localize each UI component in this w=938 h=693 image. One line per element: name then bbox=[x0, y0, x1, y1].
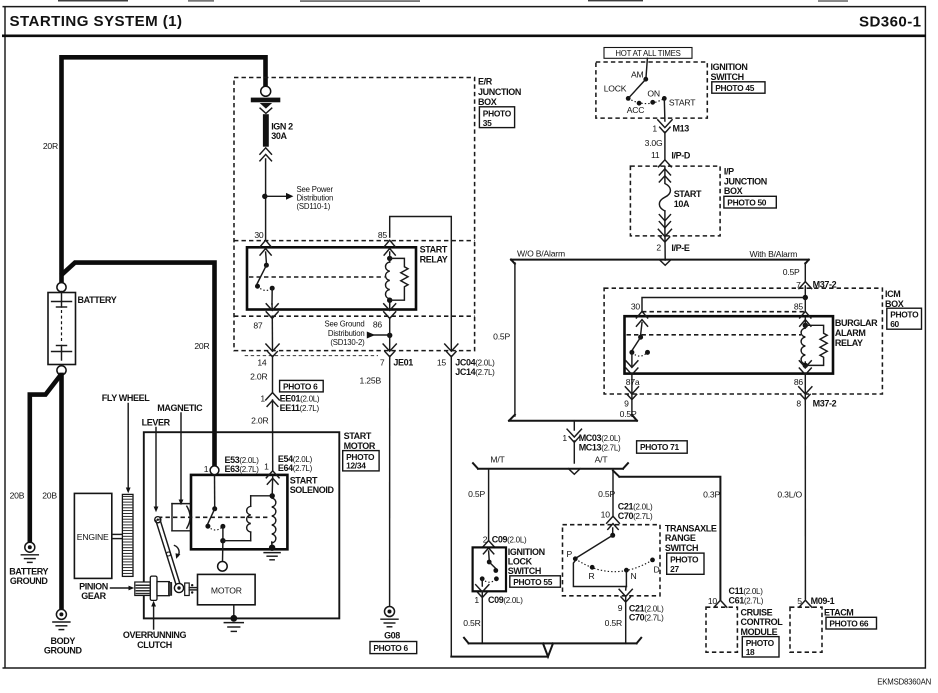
wire JC04 riser down bbox=[450, 356, 452, 657]
connector pin 5 M09-1 entry bbox=[799, 600, 812, 607]
start relay pin 30 bbox=[260, 240, 271, 247]
svg-text:20B: 20B bbox=[42, 490, 57, 500]
svg-text:I/P-D: I/P-D bbox=[671, 150, 690, 160]
fuse terminal circle bbox=[261, 86, 271, 96]
connector pin 2 C09 bbox=[482, 541, 495, 548]
solenoid pull-in coil bbox=[250, 532, 252, 541]
photo label PHOTO 66 bbox=[826, 617, 877, 629]
svg-text:M13: M13 bbox=[673, 124, 690, 134]
svg-text:20R: 20R bbox=[194, 341, 209, 351]
wire 0.3P branch bbox=[613, 471, 720, 599]
ignition switch box bbox=[596, 62, 707, 118]
svg-text:RELAY: RELAY bbox=[420, 255, 448, 265]
wire fuse to relay pin 30 bbox=[265, 159, 267, 241]
solenoid terminal 1 E53/E63 bbox=[210, 466, 219, 475]
bus M/T A/T split bbox=[473, 463, 628, 469]
svg-text:PHOTO 6: PHOTO 6 bbox=[373, 643, 408, 653]
svg-text:M/T: M/T bbox=[490, 454, 505, 464]
transaxle position arc bbox=[575, 559, 652, 572]
photo label PHOTO 6 (EE01) bbox=[280, 380, 324, 392]
title separator bar bbox=[2, 34, 926, 37]
photo label PHOTO 71 bbox=[637, 441, 688, 453]
svg-text:PHOTO 6: PHOTO 6 bbox=[283, 382, 318, 392]
svg-text:60: 60 bbox=[890, 319, 899, 329]
svg-text:TRANSAXLE: TRANSAXLE bbox=[665, 523, 717, 533]
svg-text:SWITCH: SWITCH bbox=[665, 543, 698, 553]
burglar alarm relay box bbox=[625, 316, 834, 373]
svg-text:2.0R: 2.0R bbox=[251, 415, 268, 425]
svg-text:10A: 10A bbox=[674, 199, 690, 209]
solenoid terminal 2 chevron E54/E64 bbox=[266, 471, 279, 478]
svg-text:C09(2.0L): C09(2.0L) bbox=[488, 595, 523, 605]
svg-text:LEVER: LEVER bbox=[142, 417, 171, 427]
svg-text:BOX: BOX bbox=[885, 299, 904, 309]
burglar relay mech dashed link bbox=[627, 334, 802, 336]
wire W/O branch down (0.5P) bbox=[514, 263, 516, 416]
svg-text:MODULE: MODULE bbox=[741, 627, 778, 637]
see power distribution arrow bbox=[265, 195, 286, 197]
svg-text:85: 85 bbox=[794, 301, 804, 311]
svg-text:0.5P: 0.5P bbox=[598, 489, 615, 499]
svg-text:14: 14 bbox=[257, 357, 267, 367]
svg-text:2: 2 bbox=[483, 534, 488, 544]
burglar relay resistor bbox=[805, 325, 827, 365]
svg-text:JE01: JE01 bbox=[393, 358, 413, 368]
fuse top chevrons bbox=[260, 103, 272, 109]
start relay pin 85 bbox=[384, 240, 395, 247]
svg-text:SOLENOID: SOLENOID bbox=[290, 485, 335, 495]
svg-text:R: R bbox=[588, 571, 594, 581]
wire motor to ground bbox=[233, 605, 235, 619]
clutch collar bbox=[150, 576, 157, 600]
svg-text:30: 30 bbox=[631, 301, 641, 311]
svg-text:ACC: ACC bbox=[627, 105, 645, 115]
wire With branch down bbox=[804, 263, 806, 281]
battery ground G bbox=[25, 542, 35, 552]
ignition lock switch box bbox=[473, 547, 506, 591]
body ground G bbox=[56, 609, 66, 619]
svg-text:SWITCH: SWITCH bbox=[711, 72, 744, 82]
svg-text:RANGE: RANGE bbox=[665, 533, 696, 543]
start relay pin 86 bbox=[389, 304, 391, 310]
svg-text:JUNCTION: JUNCTION bbox=[478, 87, 521, 97]
E/R junction box connector dashed row (pins 14/7) bbox=[245, 355, 378, 357]
wire pin 8 to ETACM (0.3L/O) bbox=[804, 398, 806, 599]
svg-text:AM: AM bbox=[631, 70, 644, 80]
scan specks top edge bbox=[58, 0, 848, 2]
connector pin 14 bbox=[266, 344, 279, 351]
svg-text:86: 86 bbox=[794, 377, 804, 387]
svg-text:0.5R: 0.5R bbox=[605, 618, 622, 628]
connector pin 2 I/P-E bbox=[664, 228, 666, 260]
svg-text:JUNCTION: JUNCTION bbox=[724, 176, 767, 186]
svg-text:E63(2.7L): E63(2.7L) bbox=[225, 464, 260, 474]
svg-text:ICM: ICM bbox=[885, 289, 900, 299]
see ground distribution arrow bbox=[367, 332, 375, 339]
start motor outer box bbox=[144, 432, 339, 618]
wire battery- to body ground (20B) bbox=[59, 375, 64, 609]
fuse START 10A element bbox=[659, 167, 670, 212]
svg-text:1: 1 bbox=[260, 393, 265, 403]
svg-text:PHOTO 45: PHOTO 45 bbox=[715, 83, 755, 93]
transaxle position contacts bbox=[573, 556, 578, 561]
battery terminal bottom bbox=[57, 366, 66, 375]
svg-text:1: 1 bbox=[562, 433, 567, 443]
photo label PHOTO 55 bbox=[510, 576, 561, 587]
node see-power tap bbox=[262, 194, 267, 199]
wire hot to AM bbox=[646, 58, 647, 77]
junction V at I/P-E bbox=[659, 260, 671, 266]
bus with/without alarm bbox=[511, 260, 809, 264]
svg-text:IGNITION: IGNITION bbox=[711, 62, 748, 72]
svg-text:GEAR: GEAR bbox=[81, 591, 106, 601]
wire node to pin 85 (burglar) bbox=[804, 298, 806, 312]
start relay resistor bbox=[390, 258, 408, 300]
solenoid mech dashed link bbox=[158, 516, 270, 518]
svg-text:27: 27 bbox=[670, 564, 679, 574]
fuse feed bar bbox=[251, 98, 280, 103]
svg-text:12/34: 12/34 bbox=[346, 461, 366, 471]
lever end pivot bbox=[174, 583, 183, 592]
fly wheel gear bbox=[122, 494, 133, 576]
wire A/T branch down bbox=[612, 469, 614, 516]
svg-text:18: 18 bbox=[746, 647, 755, 657]
svg-text:10: 10 bbox=[601, 509, 611, 519]
svg-text:ALARM: ALARM bbox=[835, 328, 866, 338]
svg-text:MC13(2.7L): MC13(2.7L) bbox=[579, 442, 621, 452]
svg-text:G08: G08 bbox=[384, 631, 400, 641]
wire START contact down bbox=[663, 98, 666, 121]
svg-text:START: START bbox=[674, 189, 702, 199]
relay 85 bypass wire to JC04 bbox=[390, 217, 452, 351]
svg-text:9: 9 bbox=[624, 399, 629, 409]
connector pin 1 C09 exit bbox=[476, 585, 489, 592]
svg-text:OVERRUNNING: OVERRUNNING bbox=[123, 630, 187, 640]
transaxle P path wire bbox=[573, 561, 626, 587]
svg-text:ETACM: ETACM bbox=[824, 608, 853, 618]
shift lever arm bbox=[156, 519, 181, 588]
svg-text:1.25B: 1.25B bbox=[360, 375, 382, 385]
connector pin 7 M37-2 bbox=[799, 282, 812, 289]
svg-text:30A: 30A bbox=[271, 131, 287, 141]
burglar relay pin 87a bbox=[626, 361, 638, 368]
solenoid switch bbox=[214, 475, 216, 507]
wire M13 to I/P-D (3.0G) bbox=[664, 132, 666, 160]
engine block bbox=[74, 493, 111, 578]
svg-text:C61(2.7L): C61(2.7L) bbox=[729, 595, 764, 605]
burglar relay pin 30 bbox=[636, 311, 647, 318]
svg-text:LOCK: LOCK bbox=[508, 556, 533, 566]
start relay mechanical dashed link bbox=[249, 276, 385, 278]
svg-text:10: 10 bbox=[708, 596, 718, 606]
svg-text:CRUISE: CRUISE bbox=[741, 607, 773, 617]
svg-text:0.5P: 0.5P bbox=[468, 489, 485, 499]
svg-text:CLUTCH: CLUTCH bbox=[137, 640, 172, 650]
start relay switch bbox=[265, 252, 268, 263]
connector pin 9 C21/C70 exit bbox=[619, 589, 632, 596]
photo label PHOTO 6 (G08) bbox=[370, 642, 417, 654]
svg-text:GROUND: GROUND bbox=[10, 576, 49, 586]
fuse bottom chevrons bbox=[659, 215, 670, 221]
svg-text:HOT AT ALL TIMES: HOT AT ALL TIMES bbox=[615, 49, 680, 58]
svg-text:Distribution: Distribution bbox=[328, 329, 365, 338]
svg-text:0.3L/O: 0.3L/O bbox=[777, 489, 802, 499]
svg-text:PHOTO 66: PHOTO 66 bbox=[829, 619, 869, 629]
wire pin 86 to connector JE01 bbox=[389, 318, 391, 351]
svg-text:START: START bbox=[290, 475, 318, 485]
svg-text:START: START bbox=[344, 431, 372, 441]
node see-ground tap bbox=[387, 333, 392, 338]
engine shaft bbox=[112, 533, 123, 535]
photo label PHOTO 18 bbox=[742, 637, 779, 657]
svg-text:9: 9 bbox=[618, 603, 623, 613]
svg-text:BOX: BOX bbox=[478, 97, 497, 107]
svg-text:IGNITION: IGNITION bbox=[508, 547, 545, 557]
svg-text:A/T: A/T bbox=[595, 454, 609, 464]
connector M13 bbox=[658, 120, 672, 128]
wire MC03 to MT/AT bus bbox=[573, 441, 575, 463]
svg-text:IGN 2: IGN 2 bbox=[271, 121, 293, 131]
svg-text:86: 86 bbox=[373, 319, 383, 329]
battery terminal top bbox=[57, 283, 66, 292]
svg-text:CONTROL: CONTROL bbox=[741, 617, 784, 627]
start relay box bbox=[247, 247, 416, 309]
wire cruise branch entry bbox=[714, 600, 727, 607]
ignition lock switch contacts bbox=[488, 551, 491, 560]
svg-text:SD360-1: SD360-1 bbox=[859, 14, 922, 31]
svg-text:PHOTO 50: PHOTO 50 bbox=[727, 197, 767, 207]
svg-text:D: D bbox=[654, 564, 660, 574]
svg-text:M37-2: M37-2 bbox=[813, 399, 837, 409]
svg-text:(SD130-2): (SD130-2) bbox=[330, 338, 365, 347]
svg-text:PINION: PINION bbox=[79, 581, 108, 591]
burglar relay connector dashed row bbox=[642, 311, 805, 313]
svg-text:0.3P: 0.3P bbox=[703, 489, 720, 499]
svg-text:BODY: BODY bbox=[51, 636, 76, 646]
motor ground bbox=[230, 615, 237, 622]
svg-text:C70(2.7L): C70(2.7L) bbox=[629, 613, 664, 623]
svg-text:8: 8 bbox=[796, 399, 801, 409]
svg-text:W/O B/Alarm: W/O B/Alarm bbox=[517, 248, 565, 258]
svg-text:0.5P: 0.5P bbox=[493, 331, 510, 341]
battery B1 bbox=[48, 293, 76, 365]
overrunning clutch arrow bbox=[153, 606, 155, 630]
ignition switch arc bbox=[628, 98, 664, 103]
cruise control module box bbox=[706, 607, 737, 652]
wire node to pin 30 (burglar) bbox=[642, 298, 805, 312]
svg-text:JC14(2.7L): JC14(2.7L) bbox=[455, 367, 495, 377]
wire pin7 into burglar relay node bbox=[804, 286, 806, 298]
wire EE01 to solenoid terminal bbox=[272, 400, 274, 471]
bus interlock collector bbox=[464, 638, 641, 644]
svg-text:RELAY: RELAY bbox=[835, 338, 863, 348]
start relay coil bbox=[387, 256, 392, 261]
magnetic pointer bbox=[180, 413, 182, 501]
photo label PHOTO 27 bbox=[667, 553, 704, 574]
svg-text:PHOTO: PHOTO bbox=[670, 555, 699, 565]
E/R junction box inner dashed row (pins 87/86) bbox=[234, 315, 475, 317]
wire battery+ to fuse (thick 20R riser) bbox=[62, 57, 266, 282]
svg-text:E/R: E/R bbox=[478, 77, 493, 87]
start relay pin 87 bbox=[271, 304, 273, 310]
E/R junction box outline bbox=[234, 78, 475, 351]
transaxle selector blade bbox=[612, 528, 614, 534]
ignition switch contacts bbox=[643, 77, 648, 82]
svg-text:87a: 87a bbox=[626, 377, 640, 387]
clutch spline coupler bbox=[185, 583, 190, 596]
svg-text:E64(2.7L): E64(2.7L) bbox=[278, 463, 313, 473]
svg-text:MOTOR: MOTOR bbox=[344, 441, 376, 451]
svg-text:FLY WHEEL: FLY WHEEL bbox=[102, 393, 150, 403]
connector pin 15 JC04/JC14 bbox=[445, 344, 458, 351]
svg-text:SWITCH: SWITCH bbox=[508, 566, 541, 576]
wire pin 87 to connector 14 bbox=[271, 318, 273, 351]
I/P junction box outline bbox=[630, 166, 720, 236]
svg-text:BATTERY: BATTERY bbox=[78, 295, 117, 305]
E/R junction box inner dashed row (pins 30/85) bbox=[234, 240, 475, 242]
svg-text:0.5R: 0.5R bbox=[463, 618, 480, 628]
svg-text:3.0G: 3.0G bbox=[645, 138, 663, 148]
solenoid junction to motor bbox=[222, 526, 224, 540]
svg-text:20B: 20B bbox=[10, 490, 25, 500]
connector pin 11 I/P-D bbox=[659, 160, 672, 167]
svg-text:87: 87 bbox=[253, 320, 263, 330]
svg-text:7: 7 bbox=[380, 357, 385, 367]
photo label PHOTO 50 bbox=[724, 196, 776, 208]
wire JE01 to G08 bbox=[389, 356, 391, 606]
svg-text:With B/Alarm: With B/Alarm bbox=[750, 249, 798, 259]
wire 2.0R segment bbox=[272, 356, 274, 392]
ignition switch blade bbox=[628, 79, 646, 98]
ICM box outline bbox=[604, 288, 882, 394]
svg-text:N: N bbox=[631, 571, 637, 581]
svg-text:30: 30 bbox=[254, 230, 264, 240]
svg-text:PHOTO 55: PHOTO 55 bbox=[513, 577, 553, 587]
svg-text:2: 2 bbox=[656, 243, 661, 253]
plunger fork bbox=[171, 504, 173, 531]
svg-text:I/P-E: I/P-E bbox=[671, 243, 689, 253]
transaxle range switch box bbox=[563, 525, 661, 596]
svg-text:GROUND: GROUND bbox=[44, 645, 83, 655]
fuse IGN 2 30A body bbox=[263, 114, 269, 147]
svg-text:1: 1 bbox=[474, 595, 479, 605]
lever pointer bbox=[155, 428, 157, 508]
wire battery- to battery ground (20B) bbox=[30, 377, 60, 543]
svg-text:20R: 20R bbox=[43, 141, 58, 151]
svg-text:MAGNETIC: MAGNETIC bbox=[157, 403, 203, 413]
svg-text:(SD110-1): (SD110-1) bbox=[297, 202, 331, 211]
photo label PHOTO 35 bbox=[479, 107, 514, 128]
ground G08 bbox=[385, 607, 395, 617]
svg-text:ON: ON bbox=[647, 88, 660, 98]
fuse START 10A entry chevrons bbox=[659, 169, 670, 175]
burglar relay coil bbox=[803, 323, 808, 328]
svg-text:1: 1 bbox=[652, 123, 657, 133]
fuse bottom chevrons bbox=[260, 148, 272, 154]
burglar relay pin 85 bbox=[800, 311, 811, 318]
wire merge to MC03 bbox=[573, 421, 575, 430]
svg-text:M09-1: M09-1 bbox=[811, 596, 835, 606]
motor armature terminal bbox=[218, 562, 228, 572]
junction V to JC04 return bbox=[451, 643, 553, 656]
svg-text:LOCK: LOCK bbox=[604, 83, 627, 93]
lever pivot bbox=[155, 517, 161, 523]
connector pin 10 C21/C70 bbox=[607, 516, 620, 523]
svg-text:1: 1 bbox=[264, 461, 269, 471]
svg-text:STARTING SYSTEM (1): STARTING SYSTEM (1) bbox=[10, 13, 183, 30]
svg-text:C70(2.7L): C70(2.7L) bbox=[618, 511, 653, 521]
fly wheel pointer bbox=[127, 404, 129, 489]
svg-text:85: 85 bbox=[378, 230, 388, 240]
connector pin 9 exit bbox=[631, 374, 633, 416]
svg-text:P: P bbox=[566, 549, 572, 559]
svg-text:0.5P: 0.5P bbox=[783, 267, 800, 277]
pinion gear arrow bbox=[111, 587, 130, 589]
solenoid coil ground bbox=[269, 545, 275, 551]
svg-text:MOTOR: MOTOR bbox=[211, 586, 242, 596]
transaxle N output wire bbox=[625, 570, 627, 586]
svg-text:START: START bbox=[669, 98, 696, 108]
solenoid hold-in coil bbox=[270, 493, 275, 498]
svg-text:EKMSD8360AN: EKMSD8360AN bbox=[877, 677, 931, 686]
svg-text:BOX: BOX bbox=[724, 186, 743, 196]
connector MC03/MC13 bbox=[567, 429, 581, 437]
wire battery+ to start motor solenoid (thick) bbox=[63, 263, 215, 467]
svg-text:35: 35 bbox=[483, 118, 492, 128]
svg-text:START: START bbox=[420, 245, 448, 255]
photo label PHOTO 60 bbox=[887, 308, 922, 329]
svg-text:1: 1 bbox=[204, 464, 209, 474]
svg-text:5: 5 bbox=[797, 596, 802, 606]
svg-text:I/P: I/P bbox=[724, 167, 734, 177]
burglar relay pin 86 bbox=[799, 361, 811, 368]
connector EE01/EE11 bbox=[266, 393, 280, 400]
svg-text:BURGLAR: BURGLAR bbox=[835, 318, 878, 328]
wire M/T branch down 0.5P bbox=[488, 469, 490, 540]
label HOT AT ALL TIMES bbox=[604, 48, 692, 59]
pinion gear bbox=[135, 582, 151, 596]
svg-text:PHOTO 71: PHOTO 71 bbox=[640, 442, 680, 452]
svg-text:See Ground: See Ground bbox=[324, 320, 364, 329]
burglar relay switch bbox=[641, 323, 642, 336]
svg-text:ENGINE: ENGINE bbox=[77, 532, 109, 542]
rotation arrow bbox=[175, 546, 180, 556]
photo label PHOTO 45 bbox=[712, 82, 765, 93]
connector pin 8 M37-2 exit bbox=[804, 374, 806, 400]
svg-text:C09(2.0L): C09(2.0L) bbox=[492, 534, 527, 544]
bus merge W/O + pin9 bbox=[509, 415, 637, 421]
svg-text:15: 15 bbox=[437, 357, 447, 367]
svg-text:BATTERY: BATTERY bbox=[9, 567, 48, 577]
photo label PHOTO 12/34 bbox=[343, 451, 379, 471]
motor M bbox=[198, 574, 256, 604]
start solenoid box bbox=[191, 475, 287, 549]
svg-text:2.0R: 2.0R bbox=[250, 371, 267, 381]
svg-text:EE11(2.7L): EE11(2.7L) bbox=[280, 403, 320, 413]
ETACM box bbox=[790, 607, 822, 652]
connector pin 7 JE01 bbox=[383, 344, 396, 351]
junction V at MC03 bbox=[569, 469, 581, 475]
svg-text:11: 11 bbox=[651, 150, 660, 160]
